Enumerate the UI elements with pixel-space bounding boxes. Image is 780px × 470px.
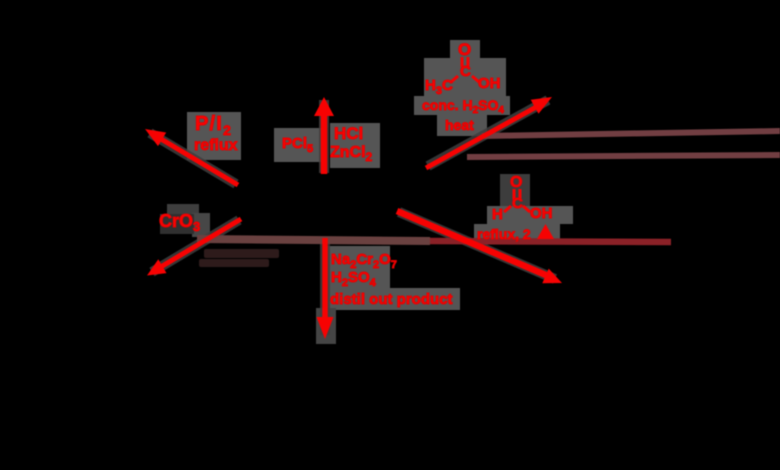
text distil out product xyxy=(330,291,452,308)
dark red line C (long underline through middle) xyxy=(197,239,671,242)
text CrO3 xyxy=(159,211,200,234)
svg-text:OH: OH xyxy=(478,75,501,92)
dark red line A (strikethrough upper right) xyxy=(482,131,780,136)
svg-text:C: C xyxy=(460,63,471,80)
arrow to chloromethane (up) xyxy=(314,97,334,174)
arrow to iodomethane (up-left) xyxy=(145,129,238,185)
svg-text:distil out product: distil out product xyxy=(330,291,452,308)
arrow to methanal (down-left) xyxy=(147,219,241,276)
text reflux (left) xyxy=(194,137,238,154)
svg-text:reflux, 2: reflux, 2 xyxy=(477,226,531,242)
svg-text:OH: OH xyxy=(530,205,553,222)
arrow distil (down) xyxy=(317,238,334,339)
svg-text:O: O xyxy=(510,174,522,191)
svg-text:HCl: HCl xyxy=(334,124,363,143)
ethanoic acid structure (top right) xyxy=(425,40,501,97)
text reflux, 2delta xyxy=(477,224,554,242)
svg-text:reflux: reflux xyxy=(194,137,238,154)
methanoic acid structure (right) xyxy=(492,174,553,223)
svg-text:C: C xyxy=(512,195,523,212)
arrow to methanoic acid (down-right) xyxy=(397,211,562,283)
dark red line B (strikethrough lower right) xyxy=(467,155,780,157)
text PCl5 xyxy=(282,135,313,155)
svg-text:heat: heat xyxy=(445,117,474,133)
text conc. H2SO4 xyxy=(422,97,504,116)
text ZnCl2 xyxy=(330,144,373,164)
svg-text:H: H xyxy=(492,206,503,223)
grey halos along arrows xyxy=(150,100,555,335)
svg-text:O: O xyxy=(458,40,471,59)
text HCl xyxy=(334,124,363,143)
ghost product text (faint) xyxy=(199,249,279,267)
text P/I2 xyxy=(195,113,232,138)
arrow to ester (up-right) xyxy=(426,97,552,168)
grey jpeg halo blocks xyxy=(160,40,573,344)
text heat xyxy=(445,117,474,133)
text H2SO4 xyxy=(331,269,377,289)
text Na2Cr2O7 xyxy=(331,251,397,271)
